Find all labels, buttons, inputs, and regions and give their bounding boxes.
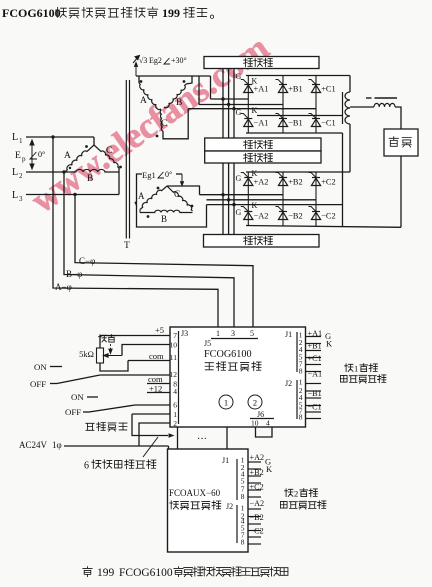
svg-text:OFF: OFF xyxy=(65,407,81,417)
primary winding C xyxy=(94,145,119,168)
wire bridge1 column x=248.3 xyxy=(247,76,249,134)
svg-text:+30°: +30° xyxy=(171,56,187,65)
wire bridge2 phase 1 xyxy=(200,194,284,196)
wire coil tap to reactor xyxy=(350,106,374,108)
label instantaneous inhibit xyxy=(86,423,94,430)
svg-text:4: 4 xyxy=(266,419,270,428)
svg-text:0°: 0° xyxy=(165,170,172,179)
svg-text:−C2: −C2 xyxy=(250,527,264,536)
wire bridge2 phase 3 / K line xyxy=(207,204,343,206)
wire coil to bridge2 bus xyxy=(349,124,351,172)
junction on L2 xyxy=(62,170,65,173)
wire pot top to +5 xyxy=(99,336,101,349)
svg-text:+C2: +C2 xyxy=(321,178,336,187)
wire bridge1 column x=283 xyxy=(282,76,284,134)
svg-text:−B1: −B1 xyxy=(288,119,303,128)
J2 bracket xyxy=(236,505,238,543)
label protection board xyxy=(244,153,253,161)
switch2 OFF contact stub xyxy=(83,411,89,413)
switch1 ON contact stub xyxy=(50,366,62,368)
svg-text:+A2: +A2 xyxy=(250,453,265,462)
junction on L1 xyxy=(51,135,54,138)
svg-text:4: 4 xyxy=(173,387,177,396)
wire AC24V down to FCOAUX xyxy=(168,446,170,449)
svg-text:G: G xyxy=(236,72,242,81)
wire B-phase sync: from L2 to J5 pin3 xyxy=(64,172,234,327)
svg-text:2: 2 xyxy=(19,172,23,180)
Eg1 winding B xyxy=(140,210,193,212)
svg-text:+C2: +C2 xyxy=(250,483,264,492)
transformer T core line 2 xyxy=(129,80,131,239)
svg-text:J5: J5 xyxy=(204,339,211,348)
svg-text:−C1: −C1 xyxy=(321,119,336,128)
FCOG6100 three-phase trigger board xyxy=(170,327,306,427)
wire Eg1 left vertex xyxy=(139,210,141,213)
thyristor +B2 xyxy=(276,173,288,186)
protection board box 4 xyxy=(204,235,320,248)
thyristor +A2 xyxy=(241,173,253,186)
dashed command arrow xyxy=(109,344,112,354)
svg-text:FCOAUX−60: FCOAUX−60 xyxy=(169,488,221,498)
wire L3 xyxy=(26,194,119,196)
protection board box 3 xyxy=(205,151,321,163)
svg-text:ON: ON xyxy=(34,362,47,372)
reactor core bar xyxy=(375,97,398,99)
J1 bracket xyxy=(236,459,238,500)
svg-text:−A1: −A1 xyxy=(308,370,323,379)
wire L1 xyxy=(26,136,94,138)
wire reactor to load xyxy=(395,107,401,129)
label expansion trigger board xyxy=(170,501,179,509)
wire bridge2 column x=316 xyxy=(315,172,317,226)
svg-text:A: A xyxy=(64,151,71,161)
svg-text:C−φ: C−φ xyxy=(79,256,95,266)
wire +5 to J3 pin7 xyxy=(100,335,170,337)
wire rail to star B xyxy=(186,76,192,84)
polarity dot xyxy=(191,205,194,208)
svg-text:+C1: +C1 xyxy=(308,354,322,363)
svg-text:1: 1 xyxy=(224,398,228,408)
wire J3 pin1 xyxy=(132,413,170,415)
svg-text:8: 8 xyxy=(241,538,245,547)
wire A-phase sync: from L1 to J5 pin1 xyxy=(53,137,218,327)
wire snubber feed 2 upper xyxy=(228,69,230,139)
wire rail to star A xyxy=(138,76,140,83)
primary winding A xyxy=(65,145,94,172)
svg-text:T: T xyxy=(124,241,130,251)
wire bridge1 negative bus down to load return xyxy=(342,133,344,226)
switch2 ON contact stub xyxy=(87,396,98,398)
Ep arrow xyxy=(30,140,34,169)
svg-text:10: 10 xyxy=(251,419,259,428)
leader line to cable xyxy=(143,437,158,457)
svg-text:ON: ON xyxy=(71,392,84,402)
svg-text:−C1: −C1 xyxy=(308,403,322,412)
svg-text:K: K xyxy=(326,339,333,349)
svg-text:AC24V: AC24V xyxy=(19,440,48,450)
wire com to J3 pin8 xyxy=(147,383,170,385)
svg-text:B: B xyxy=(161,214,167,224)
junction xyxy=(221,97,224,100)
wire bridge1 bus to interphase coil xyxy=(349,76,351,93)
wire L2 xyxy=(26,171,65,173)
wire bridge1 column x=316 xyxy=(315,76,317,134)
cable wire 1 xyxy=(177,427,179,449)
smoothing reactor coil xyxy=(374,103,395,107)
potentiometer 5k ohm xyxy=(97,348,104,363)
wire switch2 to J3 pin6 xyxy=(135,404,170,406)
svg-text:K: K xyxy=(266,464,273,474)
wire L1 to primary apex xyxy=(93,137,95,145)
svg-text:6: 6 xyxy=(173,401,177,410)
svg-text:C: C xyxy=(106,146,112,156)
junction snubber 1 xyxy=(221,193,224,196)
svg-text:8: 8 xyxy=(299,367,303,376)
Eg1 winding A xyxy=(140,186,167,210)
wire delta vertex to L3 xyxy=(118,168,120,195)
circled 2 xyxy=(248,395,262,409)
wire Eg2 rail xyxy=(136,75,211,77)
svg-text:com: com xyxy=(148,374,163,384)
svg-text:11: 11 xyxy=(170,353,177,362)
wire bridge1 negative bus xyxy=(246,132,343,134)
polarity dot xyxy=(147,215,150,218)
star winding A xyxy=(139,83,161,110)
svg-text:−B2: −B2 xyxy=(288,212,303,221)
wire switch1 to J3 pin12 xyxy=(100,374,170,376)
wire snubber feed 3 lower xyxy=(233,163,235,235)
load box xyxy=(384,129,418,156)
svg-text:+B2: +B2 xyxy=(288,178,303,187)
svg-text:+B1: +B1 xyxy=(308,342,322,351)
label protection board xyxy=(244,140,253,148)
svg-text:FCOG6100: FCOG6100 xyxy=(204,349,252,360)
svg-text:+B1: +B1 xyxy=(288,85,303,94)
svg-text:1: 1 xyxy=(354,364,358,374)
polarity dot xyxy=(69,167,71,169)
junction xyxy=(232,107,235,110)
junction snubber 3 xyxy=(232,203,235,206)
wire bridge1 phase B xyxy=(199,104,283,106)
switch1 arm xyxy=(57,375,100,384)
svg-text:+5: +5 xyxy=(155,325,164,335)
svg-text:K: K xyxy=(252,201,258,210)
wire snubber feed 1 upper xyxy=(222,69,224,139)
wire bridge2 column x=248.3 xyxy=(247,172,249,226)
wire bridge1 negative-row K line xyxy=(257,115,343,117)
wire wiper to J3 pin10 xyxy=(122,345,170,356)
svg-text:K: K xyxy=(252,77,258,86)
svg-text:p: p xyxy=(22,155,26,163)
svg-text:FCOG6100: FCOG6100 xyxy=(2,6,61,20)
svg-text:+A2: +A2 xyxy=(254,178,269,187)
wire C-phase sync: from L3 to J5 pin5 xyxy=(75,195,253,328)
Eg1 reference arrow down xyxy=(181,174,184,186)
thyristor -B2 xyxy=(276,207,288,220)
wire star C terminal to bridge1 phase C xyxy=(163,109,188,139)
svg-text:L: L xyxy=(12,190,18,201)
thyristor +C1 xyxy=(309,80,321,93)
wire snubber feed 1 lower xyxy=(222,163,224,235)
transformer T core line 1 xyxy=(125,80,127,239)
wire J3 pin2 to AC24V xyxy=(139,423,170,446)
svg-text:2: 2 xyxy=(253,398,257,408)
label to bridge no.1 thyristor gates xyxy=(345,364,353,372)
thyristor +C2 xyxy=(309,173,321,186)
star winding C xyxy=(160,110,163,131)
thyristor -A2 xyxy=(241,207,253,220)
wire bridge2 phase 2 xyxy=(207,199,317,201)
polarity dot xyxy=(119,166,122,169)
wire Eg2 connection rectangle xyxy=(198,76,200,105)
svg-text:B: B xyxy=(176,98,182,108)
J3 bracket xyxy=(178,331,180,424)
polarity dot xyxy=(140,80,143,83)
thyristor -B1 xyxy=(276,114,288,127)
svg-text:+A1: +A1 xyxy=(308,329,323,338)
thyristor +A1 xyxy=(241,80,253,93)
thyristor +B1 xyxy=(276,80,288,93)
svg-text:K: K xyxy=(252,169,258,178)
junction on L3 xyxy=(73,193,76,196)
svg-text:C: C xyxy=(161,119,167,129)
svg-text:com: com xyxy=(149,351,164,361)
svg-text:A: A xyxy=(140,96,147,106)
wire bridge2 column x=283 xyxy=(282,172,284,226)
primary winding B xyxy=(65,169,119,172)
svg-text:+A1: +A1 xyxy=(254,85,269,94)
star winding B xyxy=(164,84,186,108)
svg-text:L: L xyxy=(12,167,18,178)
svg-text:K: K xyxy=(252,106,258,115)
svg-text:199: 199 xyxy=(97,567,115,579)
svg-text:6: 6 xyxy=(84,461,89,472)
wire Eg1 apex to phase output xyxy=(167,186,200,195)
svg-text:+B2: +B2 xyxy=(250,468,264,477)
wire +12 to J3 pin4 xyxy=(147,392,170,394)
svg-text:···: ··· xyxy=(197,434,207,445)
svg-text:L: L xyxy=(12,132,18,143)
arrowhead into cable xyxy=(169,433,175,438)
polarity dot xyxy=(156,135,159,138)
svg-text:3: 3 xyxy=(231,329,235,338)
svg-text:1: 1 xyxy=(216,329,220,338)
thyristor -C1 xyxy=(309,114,321,127)
label load xyxy=(389,137,398,147)
wire rail corner down to bridge1 phase A xyxy=(210,76,212,99)
J2 bracket xyxy=(296,380,298,419)
polarity arrow on box left edge xyxy=(135,202,137,206)
wire bridge2 negative bus / load return xyxy=(246,226,401,228)
svg-text:B−φ: B−φ xyxy=(66,269,82,279)
wire load to return bus xyxy=(400,156,402,227)
svg-text:1φ: 1φ xyxy=(52,440,62,450)
polarity dot xyxy=(85,145,88,148)
svg-text:199: 199 xyxy=(162,6,180,20)
svg-text:−A1: −A1 xyxy=(254,119,269,128)
svg-text:0°: 0° xyxy=(38,150,45,159)
svg-text:2: 2 xyxy=(294,489,298,499)
wire com to J3 pin11 xyxy=(128,360,170,362)
wire snubber feed 2 lower xyxy=(228,163,230,235)
interphase coil core line xyxy=(342,92,344,124)
label three-phase trigger board xyxy=(205,363,213,370)
watermark www.elecfans.com xyxy=(24,27,276,220)
label sqrt3 Eg2 +30deg with arrow xyxy=(133,56,140,64)
J1/J2 gate-cathode stubs to bridge1 xyxy=(306,336,322,338)
svg-text:√3: √3 xyxy=(139,56,147,65)
svg-text:Eg1: Eg1 xyxy=(142,170,156,180)
label command (zhiling) xyxy=(99,335,107,342)
svg-text:−A2: −A2 xyxy=(254,212,269,221)
circled 1 xyxy=(219,395,233,409)
wire AC24V xyxy=(64,445,169,447)
svg-text:J2: J2 xyxy=(285,379,292,388)
svg-text:−B2: −B2 xyxy=(250,513,264,522)
svg-text:8: 8 xyxy=(241,492,245,501)
label to bridge no.2 thyristor gates xyxy=(285,489,293,497)
svg-text:2: 2 xyxy=(173,419,177,428)
svg-text:5: 5 xyxy=(250,329,254,338)
FCOAUX gate stubs xyxy=(248,461,261,463)
J5 bracket xyxy=(211,338,258,340)
wire bridge1 phase C xyxy=(188,108,316,110)
Eg2 reference arrow down to rail xyxy=(135,63,138,77)
svg-text:−A2: −A2 xyxy=(250,499,265,508)
svg-text:G: G xyxy=(236,208,242,217)
J6 jumper loop xyxy=(256,427,273,437)
label protection board xyxy=(244,236,253,244)
svg-text:7: 7 xyxy=(173,331,177,340)
svg-text:J1: J1 xyxy=(222,456,229,465)
wire bridge1 positive bus xyxy=(246,75,350,77)
svg-text:E: E xyxy=(15,151,21,161)
svg-text:+C1: +C1 xyxy=(321,85,336,94)
interphase transformer coil xyxy=(345,92,350,124)
wire pin1 instant-inhibit down to cable arrow xyxy=(132,414,168,436)
svg-text:OFF: OFF xyxy=(30,379,46,389)
wire snubber feed 3 upper xyxy=(233,69,235,139)
svg-text:B: B xyxy=(87,174,93,184)
svg-text:FCOG6100: FCOG6100 xyxy=(119,567,173,579)
reactor core dash xyxy=(366,97,372,99)
wire bridge2 positive bus xyxy=(246,171,350,173)
svg-text:J3: J3 xyxy=(181,329,188,338)
thyristor -A1 xyxy=(241,114,253,127)
J6 bracket xyxy=(250,418,274,420)
svg-text:1: 1 xyxy=(19,137,23,145)
svg-text:J2: J2 xyxy=(226,502,233,511)
polarity dot xyxy=(183,80,186,83)
thyristor -C2 xyxy=(309,207,321,220)
J1 bracket xyxy=(296,332,298,372)
svg-text:10: 10 xyxy=(170,341,178,350)
protection board box 1 xyxy=(204,57,319,69)
svg-text:1: 1 xyxy=(173,410,177,419)
svg-text:A−φ: A−φ xyxy=(55,282,72,292)
svg-text:5kΩ: 5kΩ xyxy=(79,349,94,359)
svg-text:−B1: −B1 xyxy=(308,389,322,398)
junction xyxy=(227,103,230,106)
switch1 OFF contact stub xyxy=(50,383,57,385)
switch2 arm xyxy=(89,405,135,412)
wire box top right segment xyxy=(176,173,182,175)
svg-text:Eg2: Eg2 xyxy=(149,56,162,65)
Eg1 winding C xyxy=(167,186,193,211)
svg-text:G: G xyxy=(236,174,242,183)
wire bridge1 phase A xyxy=(211,98,249,100)
svg-text:−C2: −C2 xyxy=(321,212,336,221)
figure caption xyxy=(83,567,92,577)
polarity dot xyxy=(157,187,160,190)
svg-text:A: A xyxy=(138,191,145,201)
pot wiper arrow xyxy=(104,354,123,358)
label protection board xyxy=(244,58,253,66)
svg-text:C: C xyxy=(174,189,180,199)
svg-text:J1: J1 xyxy=(285,330,292,339)
wire pot bottom to com xyxy=(100,361,128,372)
svg-text:G: G xyxy=(236,108,242,117)
FCOAUX-60 expansion trigger board xyxy=(168,449,249,552)
cable wire 2 xyxy=(226,427,228,449)
svg-text:3: 3 xyxy=(19,195,23,203)
protection board box 2 xyxy=(205,138,321,151)
svg-text:12: 12 xyxy=(170,370,178,379)
junction snubber 2 xyxy=(227,198,230,201)
Eg1 winding enclosure box xyxy=(137,174,207,227)
svg-text:8: 8 xyxy=(299,413,303,422)
